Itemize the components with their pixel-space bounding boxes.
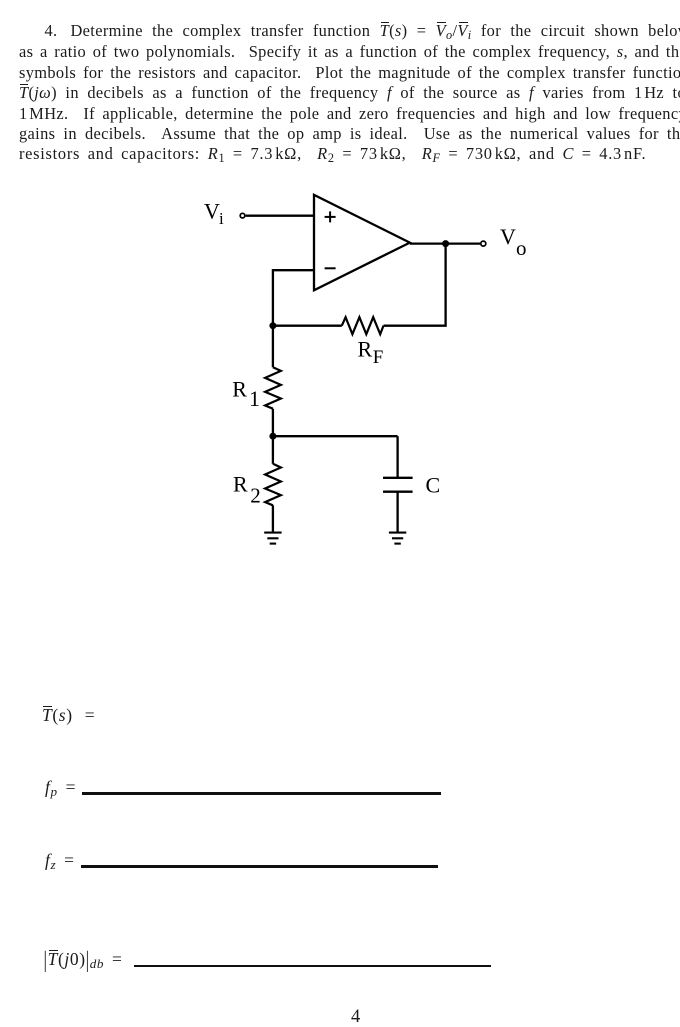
junction node A: [269, 322, 276, 329]
label R2: [233, 472, 261, 508]
wire node B to capacitor branch: [273, 435, 398, 437]
junction node B: [269, 433, 276, 440]
wire capacitor top: [396, 436, 398, 478]
resistor R1: [265, 367, 281, 409]
resistor R2: [265, 464, 281, 506]
label RF: [358, 336, 384, 368]
paragraph of problem text: [45, 23, 680, 39]
svg-text:V: V: [500, 224, 516, 249]
answer label fp =: [45, 779, 76, 797]
wire op-amp inverting input to node A: [273, 270, 314, 326]
svg-text:V: V: [204, 199, 220, 224]
svg-text:R: R: [233, 472, 248, 497]
op-amp U1: [314, 195, 410, 290]
answer label T(s) =: [42, 707, 95, 725]
wire op-amp output: [410, 242, 481, 244]
label R1: [232, 376, 260, 411]
capacitor C: [383, 478, 413, 492]
svg-text:R: R: [232, 376, 247, 401]
answer blank line for fp: [82, 792, 441, 795]
svg-text:R: R: [358, 336, 373, 361]
wire capacitor to ground: [396, 492, 398, 533]
ground under R2: [264, 533, 281, 544]
node Vo output terminal: [481, 241, 486, 246]
answer blank line for |T(j0)|db: [134, 965, 492, 967]
svg-text:o: o: [516, 236, 527, 260]
svg-text:i: i: [219, 209, 224, 228]
answer label |T(j0)|db =: [44, 951, 123, 969]
wire node A down to R1: [272, 326, 274, 368]
label Vo: [500, 224, 527, 260]
svg-text:2: 2: [250, 483, 260, 507]
answer blank line for fz: [81, 865, 438, 868]
wire Vi to op-amp + input: [246, 215, 314, 217]
resistor RF: [342, 317, 384, 334]
wire feedback: output node down and left to RF: [384, 244, 446, 326]
ground under C: [389, 533, 406, 544]
label Vi: [204, 199, 224, 228]
svg-text:F: F: [373, 347, 384, 368]
svg-text:C: C: [426, 472, 441, 497]
wire node A to RF: [273, 325, 342, 327]
wire R2 to ground: [272, 505, 274, 532]
svg-text:1: 1: [249, 386, 260, 411]
answer label fz =: [45, 852, 75, 870]
node Vi input terminal: [240, 213, 245, 218]
page number: [351, 1008, 360, 1027]
wire R1 to node B: [272, 409, 274, 437]
wire node B down to R2: [272, 436, 274, 464]
junction output node: [442, 240, 449, 247]
